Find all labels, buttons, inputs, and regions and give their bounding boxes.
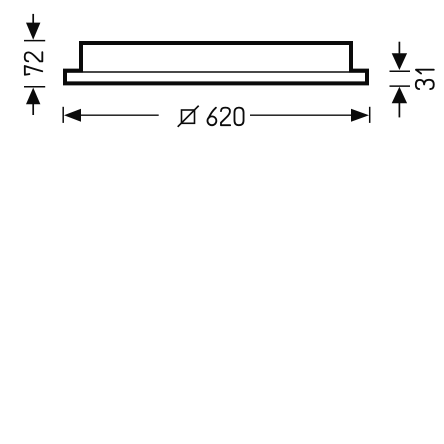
arrowhead 31 top (points down) — [392, 53, 407, 70]
dimension 31: lower tick — [390, 85, 411, 87]
luminaire body outline (housing on mounting plate, side profile) — [65, 43, 367, 83]
dimension 620: right tick — [369, 107, 371, 123]
label 72 (rotated) — [25, 52, 43, 75]
arrowhead 31 bottom (points up) — [392, 87, 407, 103]
arrowhead 72 bottom (points up) — [26, 88, 40, 105]
dimension 620: left tick — [62, 107, 64, 123]
dimension 31: lower extension line — [398, 103, 400, 117]
square symbol slash — [178, 106, 199, 127]
arrowhead 620 left (points left) — [64, 109, 81, 122]
dimension 72: lower tick — [24, 86, 45, 88]
dimension 31: upper extension line — [398, 42, 400, 54]
dimension 72: lower extension line — [32, 104, 34, 115]
dimension 72: upper tick — [24, 40, 45, 42]
joint seam line between housing and plate — [67, 71, 365, 73]
dimension 620: left line segment — [80, 114, 159, 116]
label 620 — [207, 108, 243, 126]
square symbol box — [182, 110, 195, 123]
arrowhead 72 top (points down) — [26, 23, 40, 40]
arrowhead 620 right (points right) — [351, 109, 369, 122]
dimension 620: right line segment — [250, 114, 352, 116]
dimension 31: upper tick — [390, 70, 411, 72]
label 31 (rotated) — [416, 70, 434, 89]
dimension 72: upper extension line — [32, 14, 34, 24]
